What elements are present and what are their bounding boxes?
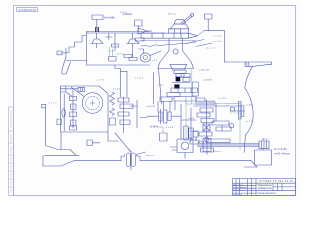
svg-text:z=32: z=32 (150, 60, 158, 62)
screw nut gear cross (201, 136, 214, 155)
gear pair right lower (124, 50, 137, 61)
teal links (110, 47, 125, 57)
lower small gears (160, 93, 205, 103)
svg-text:z=40: z=40 (108, 51, 116, 53)
svg-text:z=58: z=58 (166, 127, 174, 129)
stub box above tip (205, 14, 213, 31)
feed gearbox column (bottom-center-right) (194, 100, 240, 146)
svg-text:привода стола: привода стола (258, 187, 273, 190)
motor box M1 (92, 15, 103, 28)
gearbox housing (top-left) (66, 32, 165, 66)
svg-text:z=64: z=64 (135, 78, 144, 80)
spindle stack rects (174, 70, 186, 77)
svg-text:ЧПУ: ЧПУ (120, 12, 128, 14)
svg-text:m=2,5: m=2,5 (206, 48, 216, 50)
column sides below bell (154, 69, 162, 105)
central column gear cluster (x118-136) (118, 97, 137, 133)
left stepped outline of column (66, 36, 87, 53)
overarm beam (141, 33, 198, 38)
svg-text:Насос: Насос (146, 155, 155, 157)
handle lever (57, 48, 71, 74)
diagonal strut to pump (108, 132, 131, 152)
oil pump under bed (121, 151, 146, 171)
umbrella gear on shaft I (91, 33, 104, 48)
teal vertical through cluster (186, 70, 240, 150)
spring symbol right of table box (110, 92, 116, 125)
wide gear bar (171, 88, 197, 93)
svg-text:Шаг: Шаг (262, 137, 269, 141)
svg-text:z=28: z=28 (213, 36, 222, 38)
small bracket (87, 140, 100, 146)
svg-text:z=50/60: z=50/60 (203, 80, 213, 82)
work spindle trapezoid (170, 64, 187, 70)
clutch black block 2 (174, 84, 179, 88)
differential gear cluster (ЮС shape) (140, 109, 181, 141)
svg-text:Иванов: Иванов (241, 187, 247, 189)
svg-text:АТ7МФ4-15.ГБ4.00.00: АТ7МФ4-15.ГБ4.00.00 (259, 180, 294, 183)
lever with knob (181, 13, 194, 24)
gear pair mid (112, 33, 119, 50)
clutch black block 1 (176, 77, 181, 82)
right-center vertical shafts (181, 104, 199, 144)
baseline (74, 161, 257, 167)
table worm wheel circle (71, 87, 103, 113)
bevel gear pair (right end of input shaft) (135, 28, 152, 41)
frame border (14, 6, 296, 196)
motor box (bottom right) (255, 149, 272, 165)
dial indicator box with circle (170, 139, 193, 159)
svg-text:N=0,5кВт: N=0,5кВт (274, 147, 288, 151)
turret dome on top (169, 19, 189, 29)
svg-text:n=95 об/мин: n=95 об/мин (274, 152, 291, 156)
motor hatch box (feed drive) (259, 141, 269, 149)
vertical drop lines center (158, 101, 175, 112)
svg-text:z=24: z=24 (113, 89, 121, 91)
right machine body outline (204, 31, 272, 153)
bell column (work spindle housing) (158, 38, 194, 68)
left attachment strip (9, 107, 14, 196)
top-left stamp (17, 8, 38, 12)
hatched side box (193, 82, 199, 96)
handwheel ellipse (139, 49, 162, 62)
svg-text:Схема кинематич.: Схема кинематич. (257, 192, 277, 195)
title block (233, 179, 296, 196)
svg-text:t=12: t=12 (246, 120, 253, 123)
svg-text:z=64: z=64 (213, 41, 222, 43)
umbrella gear on shaft II (127, 33, 140, 50)
turret base blocks (169, 29, 189, 33)
svg-text:z=36: z=36 (218, 98, 227, 100)
right body gear cluster (206, 102, 245, 143)
selector box B (135, 20, 143, 32)
coupling (dark) (96, 28, 98, 32)
light band lead to right (196, 101, 215, 104)
feed box small (teal linked) (109, 57, 117, 62)
svg-text:z=25 z=45: z=25 z=45 (199, 70, 210, 72)
svg-text:Н.контр: Н.контр (233, 194, 243, 196)
tip leader lines (186, 31, 212, 47)
svg-text:z=96: z=96 (246, 105, 253, 107)
bed left pedestal (42, 104, 79, 166)
svg-text:z=40: z=40 (157, 85, 164, 87)
svg-text:АТ7МФ4.15.ГБ4: АТ7МФ4.15.ГБ4 (18, 8, 36, 12)
svg-text:гитара: гитара (150, 126, 159, 128)
elevator column step (115, 65, 127, 97)
svg-text:Стол: Стол (230, 113, 239, 115)
umbrella gear small (106, 33, 113, 40)
lead screw band (198, 143, 259, 147)
table drive shaft gears (inside box left) (57, 90, 77, 131)
svg-text:Nэ=1,5кВт: Nэ=1,5кВт (104, 16, 116, 20)
svg-text:Винт: Винт (214, 151, 221, 153)
svg-text:Стол: Стол (49, 103, 58, 105)
oil level wavy line (141, 41, 196, 47)
svg-text:Пров.: Пров. (233, 189, 242, 191)
svg-text:z=96: z=96 (96, 80, 105, 82)
svg-text:z=24: z=24 (188, 118, 195, 120)
small bars (172, 74, 190, 83)
table box (61, 86, 109, 132)
svg-text:Фреза: Фреза (168, 13, 177, 16)
svg-text:i=30/45: i=30/45 (146, 106, 156, 108)
